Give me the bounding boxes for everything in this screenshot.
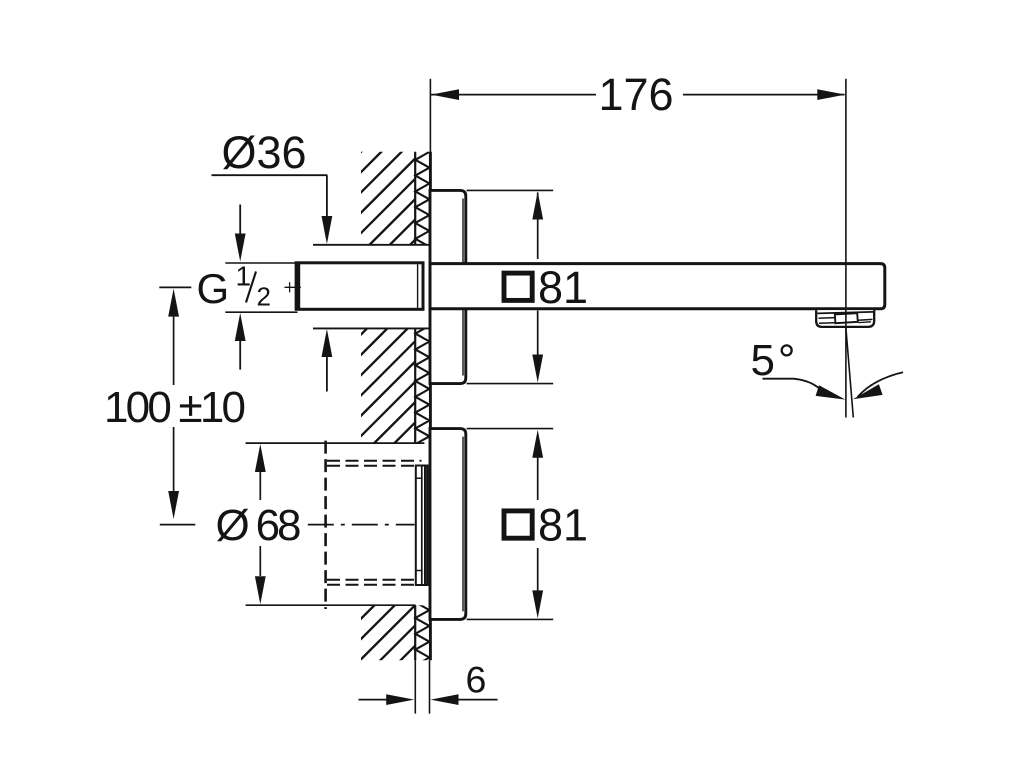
hidden body top edge 2: [327, 465, 422, 467]
leader tail below D36 bottom arrow: [326, 357, 328, 392]
upper plate face inner line: [462, 199, 464, 376]
svg-text:81: 81: [538, 500, 588, 551]
hidden body top edge 1: [327, 460, 422, 462]
arrowhead 176 right: [817, 89, 845, 100]
lower plate face inner line: [462, 437, 464, 612]
wall section hatching: [0, 100, 1002, 700]
svg-text:Ø 68: Ø 68: [216, 501, 302, 550]
arrowhead 81 upper top: [532, 192, 543, 220]
arrowhead D68 top: [255, 444, 266, 472]
arrowhead G1/2 top: [235, 234, 246, 262]
dim line 81 upper below: [537, 311, 539, 356]
extension line plate bottom: [467, 383, 554, 385]
square symbol lower: [504, 511, 532, 538]
arrowhead D68 bottom: [255, 576, 266, 604]
aerator top inner line: [818, 312, 874, 314]
5 deg dimension arc left part: [763, 379, 823, 391]
pipe end inner line: [417, 264, 419, 308]
dim line D68 upper part: [259, 471, 261, 500]
G1/2 dim line below: [239, 341, 241, 370]
arrowhead 176 left: [431, 89, 459, 100]
arrowhead D36 top: [322, 216, 333, 244]
dim 6 line left: [359, 699, 388, 701]
dim line 176 right part: [683, 94, 845, 96]
svg-text:G: G: [197, 265, 230, 312]
dim line 81 lower below: [537, 548, 539, 591]
lower wall plate: [430, 429, 466, 620]
wall face line extended below: [429, 660, 431, 713]
5 deg arc arrowhead left: [816, 385, 846, 399]
dim 6 line right: [458, 699, 498, 701]
svg-text:100 ±10: 100 ±10: [104, 383, 246, 432]
arrowhead G1/2 bottom: [235, 313, 246, 341]
G1/2 supply pipe: [296, 263, 423, 310]
5 deg arc arrowhead right: [853, 384, 883, 399]
aerator: [816, 310, 874, 327]
wall finish layer left line: [414, 152, 416, 245]
extension line bottom of D68: [246, 604, 416, 606]
svg-text:176: 176: [599, 69, 674, 120]
extension line lower plate top: [467, 428, 554, 430]
extension line right of 176 dim / vertical reference: [845, 79, 847, 418]
svg-text:2: 2: [257, 282, 271, 312]
tick top of 100 dim: [159, 286, 191, 288]
dim line 100 lower part: [173, 427, 175, 491]
dim line 81 upper above: [537, 193, 539, 260]
fraction slash: [246, 272, 256, 303]
square symbol upper: [504, 273, 532, 300]
valve centreline: [308, 524, 415, 526]
arrowhead D36 bottom: [322, 329, 333, 357]
dim line D68 lower part: [259, 546, 261, 576]
spout: [430, 264, 885, 309]
arrowhead 81 lower bottom: [532, 590, 543, 618]
extension line left of 176 dim: [429, 79, 431, 152]
extension line lower plate bottom: [467, 618, 554, 620]
wall layer line extended below: [414, 660, 416, 713]
dim line 81 lower above: [537, 457, 539, 500]
wall face line: [429, 152, 432, 661]
svg-text:5°: 5°: [751, 336, 796, 385]
svg-text:Ø36: Ø36: [222, 127, 307, 178]
extension line plate top: [467, 189, 554, 191]
extension line pipe bottom: [225, 311, 297, 313]
arrowhead 81 lower top: [532, 430, 543, 458]
leader line under D36: [212, 174, 328, 176]
hole bottom edge / extension for D36: [313, 327, 429, 329]
arrowhead 81 upper bottom: [532, 355, 543, 383]
concealed valve body hidden left edge: [324, 441, 327, 609]
extension line pipe top: [225, 262, 296, 264]
dim line 100 upper part: [173, 317, 175, 385]
5 deg dimension arc right part: [858, 372, 904, 397]
pipe centre tick vertical: [289, 282, 291, 292]
svg-text:81: 81: [538, 262, 588, 313]
finished wall layer zigzag: [415, 144, 429, 665]
arrowhead 6 right: [431, 694, 459, 705]
svg-text:1: 1: [236, 261, 252, 292]
hidden body bottom edge 1: [327, 579, 422, 581]
pipe centre tick: [285, 286, 301, 288]
spout axis tilted 5 deg: [846, 328, 853, 418]
upper wall plate: [430, 190, 466, 383]
svg-text:6: 6: [466, 659, 487, 701]
arrowhead 100 dim bottom: [168, 491, 179, 519]
arrowhead 100 dim top: [168, 289, 179, 317]
leader elbow D36: [326, 175, 328, 217]
arrowhead 6 left: [386, 694, 414, 705]
hidden body bottom edge 2: [327, 584, 422, 586]
tick bottom of 100 dim: [160, 524, 196, 526]
G1/2 dim line above: [239, 205, 241, 234]
extension line top of D68: [246, 442, 425, 444]
valve mounting flange: [416, 466, 428, 586]
hole top edge / extension for D36: [313, 244, 429, 246]
dim line 176 left part: [431, 94, 596, 96]
